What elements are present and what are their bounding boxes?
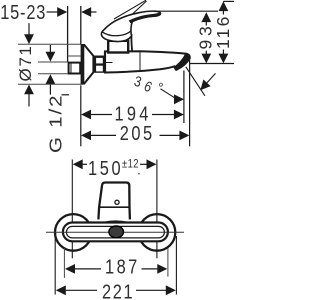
svg-text:187: 187 xyxy=(105,255,140,278)
svg-text:Ø71: Ø71 xyxy=(16,45,35,82)
svg-text:205: 205 xyxy=(120,122,155,145)
svg-text:±12: ±12 xyxy=(122,158,139,171)
svg-text:221: 221 xyxy=(102,280,134,300)
svg-text:15-23: 15-23 xyxy=(0,0,46,23)
svg-text:G 1/2: G 1/2 xyxy=(47,94,67,153)
svg-text:150: 150 xyxy=(88,157,123,180)
svg-text:116: 116 xyxy=(213,15,233,50)
